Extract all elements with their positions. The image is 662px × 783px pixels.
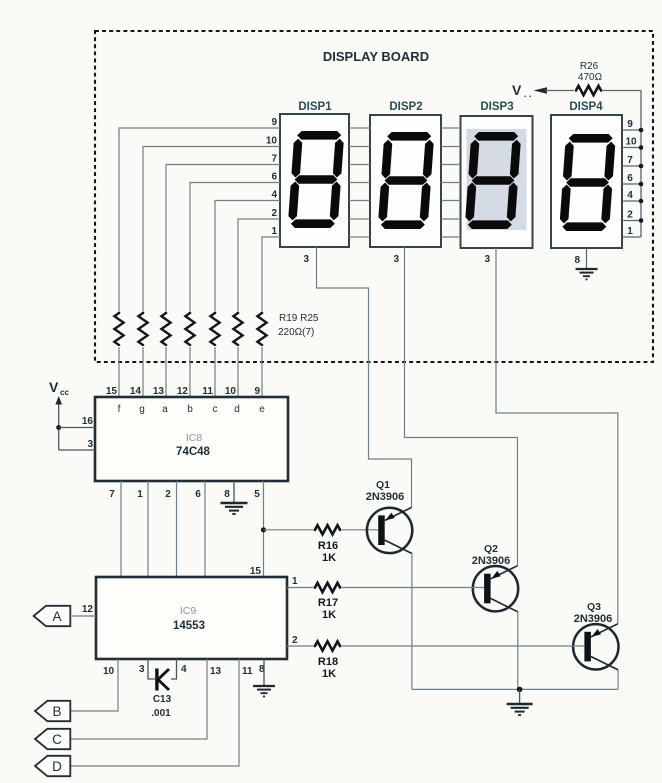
IC8 box 74C48 — [95, 397, 288, 481]
svg-text:DISP2: DISP2 — [389, 101, 422, 113]
svg-text:DISPLAY BOARD: DISPLAY BOARD — [323, 49, 429, 64]
svg-text:11: 11 — [242, 666, 253, 677]
wire staircase (pin7) to R21 — [166, 165, 280, 313]
svg-text:1K: 1K — [322, 668, 336, 680]
svg-text:74C48: 74C48 — [176, 446, 210, 458]
display DISP2 — [370, 101, 441, 247]
resistor R24 — [233, 312, 242, 346]
svg-text:13: 13 — [210, 666, 222, 677]
svg-text:7: 7 — [627, 155, 633, 166]
svg-text:13: 13 — [153, 386, 165, 397]
IC8 pin1 wire to IC9 — [147, 481, 149, 577]
IC8 pin6 wire to IC9 — [204, 481, 206, 577]
svg-text:e: e — [259, 404, 265, 415]
wire staircase (pin1) to R25 — [262, 237, 280, 312]
DISP4 pin number labels 9 10 7 6 4 2 1 — [625, 119, 637, 237]
svg-text:c: c — [213, 404, 218, 415]
svg-text:9: 9 — [271, 117, 277, 128]
wire staircase (pin6) to R22 — [190, 183, 280, 313]
svg-text:R17: R17 — [318, 597, 338, 609]
svg-text:cc: cc — [60, 388, 69, 397]
wire DISP4 right bus vertical — [640, 91, 642, 238]
svg-text:2: 2 — [271, 208, 277, 219]
IC8 segment letters f g a b c d e — [118, 404, 266, 415]
resistor R18 — [314, 641, 341, 650]
wire bus DISP2-DISP3 segment interconnects — [441, 128, 461, 237]
svg-text:D: D — [52, 759, 62, 774]
svg-text:R26: R26 — [580, 61, 599, 72]
svg-text:15: 15 — [250, 566, 262, 577]
resistor R20 — [138, 312, 147, 346]
IC9 pin10 wire to B — [70, 659, 118, 711]
svg-text:10: 10 — [103, 666, 115, 677]
DISP1 pin 3 wire to Q1 emitter — [317, 247, 412, 507]
svg-text:DISP1: DISP1 — [298, 101, 332, 113]
main ground symbol — [507, 704, 533, 715]
display DISP1 — [280, 101, 349, 247]
svg-text:10: 10 — [625, 137, 637, 148]
display DISP4 — [551, 101, 622, 248]
IC9 pin8 wire and ground — [263, 659, 265, 685]
svg-text:4: 4 — [181, 664, 187, 675]
svg-text:8: 8 — [574, 255, 580, 266]
wire R16 to Q1 base — [341, 529, 378, 531]
IC8 pin5 wire down to node — [263, 481, 265, 577]
IC9 box 14553 — [96, 577, 287, 659]
svg-text:C13: C13 — [153, 694, 172, 705]
svg-text:4: 4 — [271, 190, 277, 201]
wire R18 to Q3 base — [341, 645, 585, 647]
svg-text:14553: 14553 — [173, 620, 205, 632]
DISP1 left pin numbers 9 10 7 6 4 2 1 — [266, 117, 278, 237]
wire R19..R25 down to IC8 top pins — [119, 347, 262, 397]
resistor R17 — [314, 583, 341, 592]
svg-text:2: 2 — [292, 635, 298, 646]
IC9 pin13 wire to C — [70, 659, 207, 739]
svg-text:R18: R18 — [318, 656, 338, 668]
svg-text:IC9: IC9 — [180, 605, 197, 617]
svg-text:1K: 1K — [322, 609, 336, 621]
svg-text:3: 3 — [393, 254, 399, 265]
resistor R19 — [114, 312, 123, 346]
IC9 bottom pin labels 10 3 4 13 11 8 — [103, 664, 265, 677]
svg-text:2: 2 — [627, 210, 633, 221]
DISP4 right pin stubs and numbers — [622, 130, 641, 237]
svg-text:Q2: Q2 — [484, 543, 498, 555]
resistor R26 with V+ arrow — [512, 61, 641, 99]
connector C — [35, 729, 70, 749]
IC9 pin11 wire to D — [70, 659, 239, 766]
IC9 pin3 wire to C13 — [148, 659, 155, 679]
DISP4 pin 8 wire and ground — [586, 248, 588, 268]
svg-text:9: 9 — [254, 386, 260, 397]
wire Q1 collector down to rail — [411, 554, 413, 690]
IC8 top pin numbers — [106, 386, 261, 397]
svg-text:12: 12 — [82, 604, 94, 615]
svg-text:R16: R16 — [318, 540, 338, 552]
svg-text:DISP4: DISP4 — [569, 101, 603, 113]
IC8 pin8 wire and ground — [233, 481, 235, 502]
resistor R16 — [314, 525, 341, 534]
wire staircase (pin4) to R23 — [215, 201, 280, 313]
svg-text:1: 1 — [137, 489, 143, 500]
svg-text:3: 3 — [139, 664, 145, 675]
svg-text:3: 3 — [484, 254, 490, 265]
svg-text:d: d — [234, 404, 240, 415]
svg-text:B: B — [52, 704, 61, 719]
wire staircase seg f (pin9) to R19 — [119, 128, 280, 312]
svg-text:10: 10 — [225, 386, 237, 397]
svg-text:b: b — [187, 404, 193, 415]
svg-text:g: g — [139, 404, 145, 415]
svg-text:1: 1 — [271, 226, 277, 237]
svg-text:2N3906: 2N3906 — [366, 491, 405, 503]
svg-text:3: 3 — [303, 254, 309, 265]
display board dashed border — [95, 31, 653, 362]
connector D — [35, 756, 70, 776]
svg-text:4: 4 — [627, 190, 633, 201]
resistor R21 — [161, 312, 170, 346]
connector B — [35, 701, 70, 721]
IC8 bottom pin numbers 7 1 2 6 8 5 — [109, 489, 260, 500]
svg-text:1: 1 — [627, 226, 633, 237]
connector A — [34, 606, 71, 626]
svg-text:7: 7 — [271, 154, 277, 165]
DISP3 pin 3 wire to Q3 emitter — [496, 248, 618, 624]
svg-text:DISP3: DISP3 — [480, 101, 513, 113]
resistor R25 — [257, 312, 266, 346]
resistor R23 — [210, 312, 219, 346]
svg-text:220Ω(7): 220Ω(7) — [278, 327, 314, 338]
svg-text:10: 10 — [266, 136, 278, 147]
svg-text:6: 6 — [271, 172, 277, 183]
svg-text:11: 11 — [202, 386, 213, 397]
svg-text:8: 8 — [224, 489, 230, 500]
svg-text:5: 5 — [254, 489, 260, 500]
wire staircase (pin2) to R24 — [238, 219, 280, 312]
svg-text:2: 2 — [165, 489, 171, 500]
svg-text:9: 9 — [627, 119, 633, 130]
svg-text:470Ω: 470Ω — [578, 72, 603, 83]
IC9 pin 1 wire to R17 — [287, 587, 314, 589]
node junction pin5/R16/IC9 pin15 — [261, 527, 266, 532]
svg-text:IC8: IC8 — [186, 432, 203, 444]
svg-text:15: 15 — [106, 386, 118, 397]
svg-text:f: f — [118, 404, 121, 415]
IC8 pin7 wire to IC9 — [120, 481, 122, 577]
svg-text:16: 16 — [82, 416, 94, 427]
svg-text:7: 7 — [109, 489, 115, 500]
IC9 pin 2 wire to R18 — [287, 645, 314, 647]
capacitor C13 — [151, 669, 171, 720]
emitter ground rail — [412, 688, 618, 690]
IC9 pin 12 stub — [70, 615, 96, 617]
IC8 pin 3 stub — [59, 449, 95, 451]
wire R17 to Q2 base — [341, 587, 484, 589]
wire Q3 collector down to rail — [617, 670, 619, 690]
svg-text:12: 12 — [177, 386, 189, 397]
svg-text:. .: . . — [524, 89, 532, 99]
IC9 pin4 wire to C13 — [171, 659, 177, 679]
Vcc supply arrow — [49, 379, 69, 450]
svg-text:Q1: Q1 — [376, 479, 390, 491]
svg-text:A: A — [52, 609, 61, 624]
IC8 pin2 wire to IC9 — [176, 481, 178, 577]
rail junction dot — [517, 687, 523, 693]
wire node to R16 — [264, 529, 315, 531]
svg-text:.001: .001 — [151, 708, 171, 719]
svg-text:1K: 1K — [322, 552, 336, 564]
svg-text:V: V — [49, 379, 59, 395]
ground under DISP4 — [576, 269, 598, 279]
wire Q2 collector down to rail — [517, 612, 519, 690]
svg-text:V: V — [512, 82, 522, 98]
svg-text:R19 R25: R19 R25 — [279, 313, 319, 324]
svg-text:14: 14 — [130, 386, 142, 397]
svg-text:6: 6 — [627, 173, 633, 184]
resistor R22 — [185, 312, 194, 346]
svg-text:1: 1 — [292, 576, 298, 587]
wire staircase (pin10) to R20 — [143, 147, 280, 313]
svg-text:C: C — [52, 732, 62, 747]
wire bus DISP1-DISP2 segment interconnects — [349, 128, 370, 237]
svg-text:3: 3 — [87, 439, 93, 450]
svg-text:6: 6 — [195, 489, 201, 500]
wire rail to ground — [519, 689, 521, 703]
svg-text:a: a — [162, 404, 168, 415]
display DISP3 — [461, 101, 533, 248]
DISP2 pin 3 wire to Q2 emitter — [405, 247, 518, 566]
junction dots on DISP4 bus — [639, 128, 644, 223]
svg-text:Q3: Q3 — [587, 601, 601, 613]
IC8 pin 16 stub — [59, 427, 95, 429]
